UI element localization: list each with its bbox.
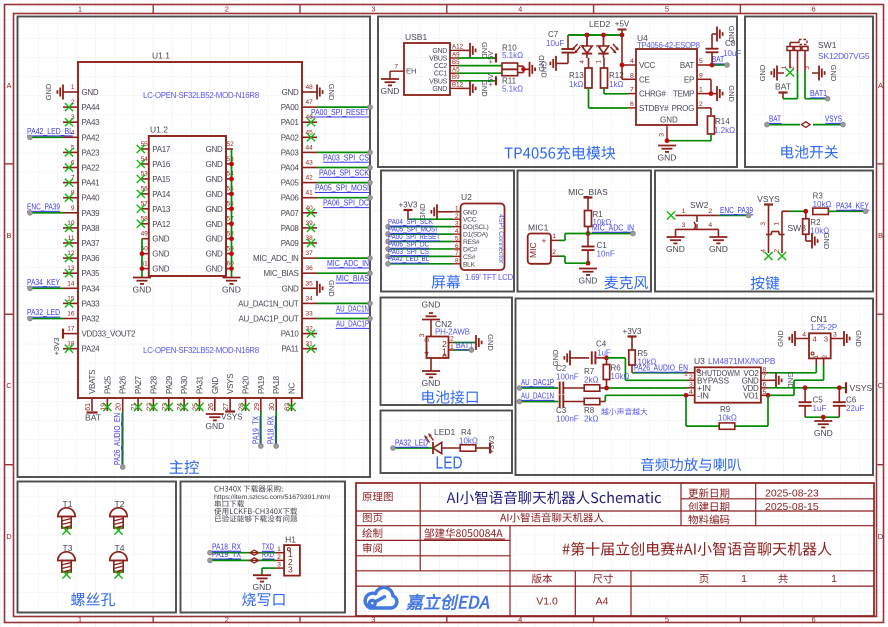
svg-text:GND: GND (486, 334, 495, 351)
svg-text:58: 58 (141, 216, 149, 223)
section title TP4056充电模块 (505, 146, 616, 160)
svg-text:GND: GND (579, 276, 598, 286)
no-connect X on U1.1 pin 7 (65, 179, 73, 187)
wire VBUS A9 to +5V (458, 57, 496, 59)
svg-text:4: 4 (813, 335, 817, 344)
U1.1 pin 13 PA35 (63, 265, 100, 278)
U1.1 pin 17 VDD33_VOUT2 (63, 326, 136, 339)
svg-text:2: 2 (774, 249, 781, 253)
wire SW2 pin3 to ground (675, 229, 677, 237)
svg-text:3: 3 (760, 222, 767, 226)
svg-text:PA13: PA13 (152, 205, 171, 214)
ground symbol at U1.1 pin 26 (205, 414, 224, 431)
svg-text:GND: GND (152, 235, 169, 244)
resistor R5 10k (629, 349, 657, 367)
wire PA04_SPI_SCK (317, 167, 370, 169)
U1.2 pin 56 GND (206, 201, 235, 214)
section box 螺丝孔box (18, 482, 177, 613)
wire CN2 pin4 down to ground (430, 358, 432, 371)
connector U2 4SPI LCD (453, 192, 505, 270)
svg-text:56: 56 (141, 186, 149, 193)
svg-text:MIC_ADC_IN: MIC_ADC_IN (592, 223, 634, 232)
svg-text:PA43: PA43 (82, 118, 101, 127)
junction C1 ground node (586, 261, 591, 266)
no-connect X on U1.2 pin 56 (137, 190, 145, 198)
svg-text:1uF: 1uF (813, 404, 827, 413)
svg-text:3: 3 (824, 335, 828, 344)
net port dot BAT1 (469, 348, 474, 353)
encoder switch SW2 (676, 200, 719, 229)
U1.1 pin 43 PA04 (281, 160, 317, 173)
svg-text:VBATS: VBATS (88, 370, 97, 394)
svg-text:8: 8 (630, 72, 634, 79)
U1.1 pin 3 PA43 (63, 114, 100, 127)
no-connect X on U1.1 pin 19 (103, 403, 111, 411)
ground symbol below SW2 pin4 (709, 237, 728, 254)
title block frame (356, 483, 874, 616)
wire CC1 to R11 (458, 72, 502, 74)
wire R8 to -IN (600, 401, 606, 403)
ground flag above C8 (717, 26, 736, 43)
svg-text:41: 41 (306, 190, 314, 197)
svg-text:U1.2: U1.2 (150, 125, 168, 135)
author 邹建华8050084A (424, 528, 502, 538)
svg-text:GND: GND (666, 244, 685, 254)
VSYS power flag at U1.1 pin 27 (221, 412, 242, 422)
svg-text:30: 30 (269, 403, 276, 411)
U1.1 pin 25 PA31 (192, 375, 204, 411)
junction VDD C6 (837, 385, 842, 390)
U1.2 pin 55 GND (206, 186, 235, 199)
junction on U1.2 left GND bus pin 51 (140, 266, 145, 271)
svg-text:PA00_SPI_RESET: PA00_SPI_RESET (311, 108, 369, 117)
junction R3 R2 (803, 209, 808, 214)
wire BAT to fuse (767, 124, 800, 126)
svg-text:3: 3 (833, 332, 837, 339)
no-connect X on U1.1 pin 10 (65, 224, 73, 232)
U1.1 pin 16 PA32 (63, 311, 100, 324)
U1.1 pin 1 GND (63, 84, 99, 97)
wire PA03_SPI_CS (317, 151, 370, 153)
wire PA42_LED_BL (30, 136, 63, 138)
svg-text:2: 2 (455, 213, 459, 220)
svg-text:3: 3 (419, 333, 426, 337)
svg-text:PA36: PA36 (82, 254, 101, 263)
svg-text:EH: EH (406, 67, 416, 76)
net port dot PA03_SPI_CS (368, 150, 373, 155)
svg-text:DO(SCL): DO(SCL) (463, 224, 488, 231)
svg-text:PA04: PA04 (281, 164, 300, 173)
U1.1 pin 2 PA44 (63, 99, 100, 112)
svg-text:GND: GND (776, 330, 785, 347)
title block label 共 (778, 574, 788, 584)
wire CC2 to R10 (458, 65, 502, 67)
wire PA18_RX to H1 pin1 (210, 552, 249, 554)
svg-text:53: 53 (227, 156, 235, 163)
junction on U1.2 right GND bus (229, 251, 234, 256)
svg-text:1: 1 (78, 5, 82, 14)
svg-text:PA08: PA08 (281, 224, 300, 233)
VSYS power flag right (846, 382, 873, 393)
wire R12 to CHRG# (603, 88, 605, 94)
svg-text:PA00: PA00 (281, 103, 300, 112)
section box 按键box (655, 171, 873, 292)
svg-text:10uF: 10uF (546, 39, 564, 48)
svg-text:CC1: CC1 (434, 71, 448, 78)
svg-text:3: 3 (455, 220, 459, 227)
net port dot PA05_SPI_MOSI (386, 232, 391, 237)
svg-text:CC2: CC2 (434, 63, 448, 70)
svg-text:5.1kΩ: 5.1kΩ (502, 51, 523, 60)
svg-text:5.1kΩ: 5.1kΩ (502, 85, 523, 94)
net port dot PA26_AUDIO_EN (120, 465, 125, 470)
no-connect X on U1.1 pin 21 (134, 403, 142, 411)
section box TP4056 (378, 17, 737, 168)
junction EP TEMP (709, 91, 714, 96)
ground symbol below C1 (579, 269, 598, 286)
U1.1 pin 24 PA30 (177, 375, 189, 411)
ground symbol below H1 (253, 575, 272, 592)
capacitor C3 100nF (556, 395, 579, 424)
svg-text:1: 1 (450, 344, 454, 351)
wire LED2 right cathode to R12 (603, 58, 605, 68)
svg-text:PA06: PA06 (281, 194, 300, 203)
wire PA19_TX (260, 411, 262, 446)
U1.1 pin 44 PA03 (281, 144, 317, 157)
wire MIC1 pin2 to ground node (560, 255, 566, 257)
svg-text:1: 1 (699, 87, 703, 94)
svg-text:GND: GND (758, 64, 767, 81)
U1.1 pin 22 PA28 (146, 375, 158, 411)
resistor R6 10k (603, 364, 629, 382)
svg-text:4: 4 (424, 351, 431, 355)
svg-text:17: 17 (67, 326, 75, 333)
wire C8 bottom to BAT (711, 52, 713, 65)
svg-text:1: 1 (552, 233, 556, 240)
resistor R2 10k (803, 218, 830, 236)
net port dot PA32_LED (391, 446, 396, 451)
svg-text:LED: LED (436, 453, 463, 473)
no-connect X on U1.1 pin 13 (65, 269, 73, 277)
no-connect X on U1.1 pin 40 (307, 209, 315, 217)
svg-text:2kΩ: 2kΩ (584, 376, 598, 385)
ground flag left of C4 (551, 349, 570, 366)
svg-text:3: 3 (804, 66, 811, 70)
svg-text:1: 1 (455, 206, 459, 213)
svg-text:1.2kΩ: 1.2kΩ (714, 126, 735, 135)
svg-text:PA40: PA40 (82, 194, 101, 203)
wire AU_DAC1N (317, 302, 370, 304)
wire MIC_BIAS (317, 272, 370, 274)
svg-text:GND: GND (432, 86, 447, 93)
wire PA03_SPI_CS (388, 255, 453, 257)
no-connect X on U1.1 pin 32 (307, 330, 315, 338)
svg-text:V1.0: V1.0 (536, 596, 558, 608)
svg-text:C7: C7 (548, 30, 559, 39)
+3V3 power flag at U1.1 pin 17 (52, 329, 63, 356)
wire VBUS B9 to +5V (458, 80, 496, 82)
svg-text:A: A (6, 81, 11, 90)
svg-text:BAT: BAT (85, 413, 101, 423)
ground symbol below C5 C6 (822, 417, 824, 421)
ground flag at U1.1 pin 48 (317, 84, 336, 101)
svg-text:3: 3 (277, 562, 281, 569)
title block label 审阅 (363, 543, 382, 553)
BAT power flag at U1.1 pin 61 (85, 413, 101, 423)
U1.1 pin 61 VBATS (85, 370, 97, 411)
svg-text:PA37: PA37 (82, 239, 101, 248)
no-connect X on U1.1 pin 6 (65, 163, 73, 171)
svg-text:STDBY#: STDBY# (639, 104, 669, 113)
svg-text:VCC: VCC (463, 217, 477, 224)
svg-text:4: 4 (579, 59, 586, 63)
section title 主控 (169, 460, 199, 474)
JLC EDA logo cloud (365, 587, 397, 608)
svg-text:GND: GND (327, 280, 336, 297)
title block label 创建日期 (688, 502, 729, 512)
wire CN2 pin1 BAT1 (454, 349, 472, 351)
svg-text:52: 52 (227, 141, 235, 148)
svg-text:4: 4 (802, 332, 806, 339)
U1.2 pin 53 PA15 (141, 171, 171, 184)
svg-text:MIC: MIC (528, 242, 538, 258)
title block label 页 (699, 574, 708, 583)
U1.1 pin 45 PA02 (281, 129, 317, 142)
U1.1 pin 32 PA10 (281, 326, 317, 339)
wire U2 VCC to +3V3 (408, 218, 453, 220)
section box 主控 (18, 17, 371, 478)
svg-text:53: 53 (141, 171, 149, 178)
U1.2 pin 59 GND (206, 245, 235, 258)
no-connect X on U1.1 pin 31 (307, 345, 315, 353)
svg-text:6: 6 (630, 101, 634, 108)
svg-text:59: 59 (227, 245, 235, 252)
ground flag at U2 pin 1 (418, 203, 437, 220)
svg-text:PA22: PA22 (82, 164, 101, 173)
svg-text:PA42_LED_BL: PA42_LED_BL (388, 254, 429, 263)
wire AU_DAC1P (317, 318, 370, 320)
svg-text:TEMP: TEMP (673, 90, 694, 99)
U1.1 pin 19 PA25 (100, 375, 112, 411)
svg-text:PA09: PA09 (281, 239, 300, 248)
wire mic pin2 node (565, 262, 588, 264)
no-connect X on SW3 pin 2 (778, 252, 786, 260)
svg-text:C4: C4 (596, 340, 607, 349)
svg-text:49: 49 (141, 231, 149, 238)
svg-text:37: 37 (306, 250, 314, 257)
svg-text:5: 5 (665, 5, 669, 14)
ground flag right of CN2 (476, 334, 495, 351)
svg-text:3: 3 (579, 44, 586, 48)
capacitor C5 1uF (799, 396, 827, 414)
svg-text:GND: GND (206, 265, 223, 274)
svg-text:54: 54 (227, 171, 235, 178)
wire VDD to VSYS rail (769, 387, 846, 389)
svg-text:AU_DAC1N: AU_DAC1N (336, 304, 369, 313)
wire SW1 pin3 to BAT1 (804, 71, 806, 99)
ruler ticks and numbers (152, 5, 154, 14)
resistor R4 10k (459, 428, 478, 451)
svg-text:1: 1 (78, 615, 82, 624)
svg-text:54: 54 (141, 156, 149, 163)
junction R7 R6 (604, 386, 609, 391)
wire C8 top to ground flag (711, 34, 713, 49)
svg-text:BAT: BAT (680, 61, 694, 70)
junction LED2 anode right (601, 33, 606, 38)
title block label 尺寸 (593, 574, 613, 584)
svg-text:VSYS: VSYS (825, 115, 842, 124)
wire PA32_LED (30, 318, 63, 320)
svg-text:PA17: PA17 (152, 145, 171, 154)
svg-text:4: 4 (630, 58, 634, 65)
svg-text:2: 2 (789, 66, 796, 70)
mounting hole T4 (110, 543, 127, 572)
+3V3 power flag above R5 (623, 327, 642, 350)
wire VCC to +5V rail (621, 35, 623, 79)
svg-text:CE: CE (639, 75, 650, 84)
no-connect X on U1.1 pin 24 (180, 403, 188, 411)
svg-text:PA02: PA02 (281, 133, 300, 142)
U1.1 pin 30 PA18 (269, 375, 281, 411)
svg-text:1kΩ: 1kΩ (609, 80, 623, 89)
IC U4 TP4056-42-ESOP8 (628, 33, 705, 140)
svg-text:PA34: PA34 (82, 284, 101, 293)
wire R5 to SHUTDOWN (631, 365, 633, 373)
junction on U1.2 right GND bus (229, 221, 234, 226)
wire MIC_ADC_IN (317, 257, 370, 259)
capacitor C1 10nF (582, 241, 615, 259)
svg-text:GND: GND (206, 250, 223, 259)
svg-text:VCC: VCC (639, 61, 656, 70)
wire PA00_SPI_RESET (317, 106, 370, 108)
U1.1 pin 46 PA01 (281, 114, 317, 127)
net port dot PA00_SPI_RESET (368, 105, 373, 110)
no-connect X on U1.1 pin 46 (307, 118, 315, 126)
svg-text:2: 2 (689, 374, 693, 381)
U1.1 pin 28 PA20 (239, 375, 251, 411)
svg-text:BAT: BAT (769, 115, 781, 124)
svg-text:7: 7 (394, 64, 398, 71)
U1.1 pin 21 PA27 (131, 375, 143, 411)
svg-text:PA10: PA10 (281, 330, 300, 339)
net port dot BAT (725, 63, 730, 68)
svg-text:2: 2 (225, 615, 229, 624)
svg-text:GND: GND (206, 235, 223, 244)
svg-text:D: D (6, 532, 12, 541)
svg-text:+5V: +5V (615, 20, 630, 29)
svg-text:57: 57 (227, 216, 235, 223)
svg-text:1: 1 (684, 371, 688, 378)
svg-text:GND: GND (814, 428, 833, 438)
svg-text:27: 27 (223, 403, 230, 411)
svg-text:B: B (6, 231, 11, 240)
no-connect X on U1.1 pin 23 (165, 403, 173, 411)
junction on U1.2 left GND bus pin 50 (140, 251, 145, 256)
svg-text:1: 1 (741, 573, 747, 585)
U1.1 pin 48 GND (282, 84, 317, 97)
svg-text:PA32_LED: PA32_LED (27, 308, 60, 317)
svg-text:42: 42 (306, 175, 314, 182)
net port dot ENC_PA39 (746, 213, 751, 218)
page title AI小智语音聊天机器人 (500, 513, 604, 523)
wire C4 node to BYPASS (607, 357, 626, 359)
switch SW1 SK12D07VG5 (777, 40, 870, 74)
svg-text:R13: R13 (569, 71, 584, 80)
svg-text:+3V3: +3V3 (487, 436, 496, 454)
resistor R9 10k (718, 405, 737, 429)
net port dot PA03_SPI_CS (386, 254, 391, 259)
section box 烧写口box (181, 482, 346, 613)
annotation 越小声音越大 (601, 408, 647, 415)
U1.1 pin 47 PA00 (281, 99, 317, 112)
ground (inverted) above CN2 (422, 300, 441, 320)
section title 麦克风 (605, 276, 648, 290)
svg-text:4SPI Connector: 4SPI Connector (497, 214, 504, 264)
svg-text:55: 55 (141, 141, 149, 148)
schematic title AI小智语音聊天机器人Schematic (447, 491, 661, 505)
net port dot PA34_KEY (863, 209, 868, 214)
section title 按键 (751, 276, 780, 290)
svg-text:PA42: PA42 (82, 133, 101, 142)
U1.1 pin 62 NC (285, 383, 297, 411)
mounting hole T2 (110, 499, 127, 528)
svg-text:PA01: PA01 (281, 118, 300, 127)
project name #第十届立创电赛#AI小智语音聊天机器人 (563, 542, 832, 556)
wire TEMP to ground (705, 93, 717, 95)
junction on U1.2 right GND bus (229, 236, 234, 241)
wire U3 GND to ground flag (769, 379, 776, 381)
wire PA04_SPI_SCK (388, 226, 453, 228)
svg-text:EP: EP (684, 75, 694, 84)
svg-text:+3V3: +3V3 (52, 338, 61, 356)
wire R1 to MIC_ADC_IN node (587, 227, 589, 234)
+5V power flag at USB1 pin A9 (486, 51, 496, 64)
svg-text:U3: U3 (694, 356, 705, 366)
LED2 dual charge LED (572, 19, 620, 63)
no-connect X on SW1 pin 1 (786, 68, 794, 76)
svg-text:PA31: PA31 (195, 375, 204, 394)
net label PA19_TX (251, 415, 260, 444)
svg-text:MIC_BIAS: MIC_BIAS (264, 269, 299, 278)
svg-text:TP4056-42-ESOP8: TP4056-42-ESOP8 (637, 41, 700, 50)
svg-text:PA15: PA15 (152, 175, 171, 184)
wire C3 to R8 (563, 401, 584, 403)
svg-text:MIC_ADC_IN: MIC_ADC_IN (327, 259, 369, 268)
U1.1 pin 15 PA33 (63, 295, 100, 308)
svg-text:2kΩ: 2kΩ (584, 415, 598, 424)
ground flag left of C7 (537, 54, 556, 71)
wire SW1 pin2 to BAT flag (797, 71, 799, 99)
U1.2 pin 57 GND (206, 216, 235, 229)
svg-text:34: 34 (306, 295, 314, 302)
mounting hole T3 (58, 543, 75, 572)
svg-text:PA16: PA16 (152, 160, 171, 169)
title block label 原理图 (362, 492, 392, 501)
capacitor C4 1uF (592, 340, 611, 365)
section title 音频功放与喇叭 (641, 458, 741, 472)
svg-text:PA28: PA28 (149, 375, 158, 394)
svg-text:35: 35 (306, 280, 314, 287)
svg-text:SW1: SW1 (818, 40, 837, 50)
wire ground to C4 (570, 357, 589, 359)
svg-text:BAT: BAT (775, 82, 791, 92)
resistor R10 5.1k (502, 44, 523, 70)
no-connect X on U1.1 pin 28 (241, 403, 249, 411)
svg-text:PA44: PA44 (82, 103, 101, 112)
junction U4 GND (665, 138, 670, 143)
svg-text:VBUS: VBUS (429, 78, 447, 85)
wire R9 to -IN (686, 425, 719, 427)
